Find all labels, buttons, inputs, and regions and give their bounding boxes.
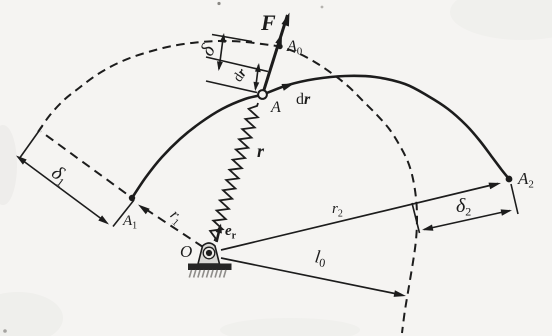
svg-text:δ2: δ2	[456, 195, 471, 219]
svg-text:A0: A0	[286, 38, 303, 58]
svg-text:r: r	[257, 141, 265, 161]
svg-text:O: O	[180, 242, 192, 261]
svg-text:δ1: δ1	[46, 162, 72, 190]
svg-text:δ: δ	[196, 41, 220, 60]
svg-text:dr: dr	[231, 66, 251, 85]
svg-text:A: A	[270, 99, 281, 116]
svg-text:A1: A1	[122, 213, 137, 232]
svg-text:A2: A2	[517, 169, 534, 191]
svg-text:F: F	[260, 10, 276, 35]
svg-text:r2: r2	[332, 201, 343, 220]
svg-text:er: er	[225, 223, 237, 242]
svg-text:l0: l0	[313, 246, 327, 270]
svg-text:dr: dr	[296, 91, 311, 108]
svg-text:r1: r1	[165, 206, 186, 228]
